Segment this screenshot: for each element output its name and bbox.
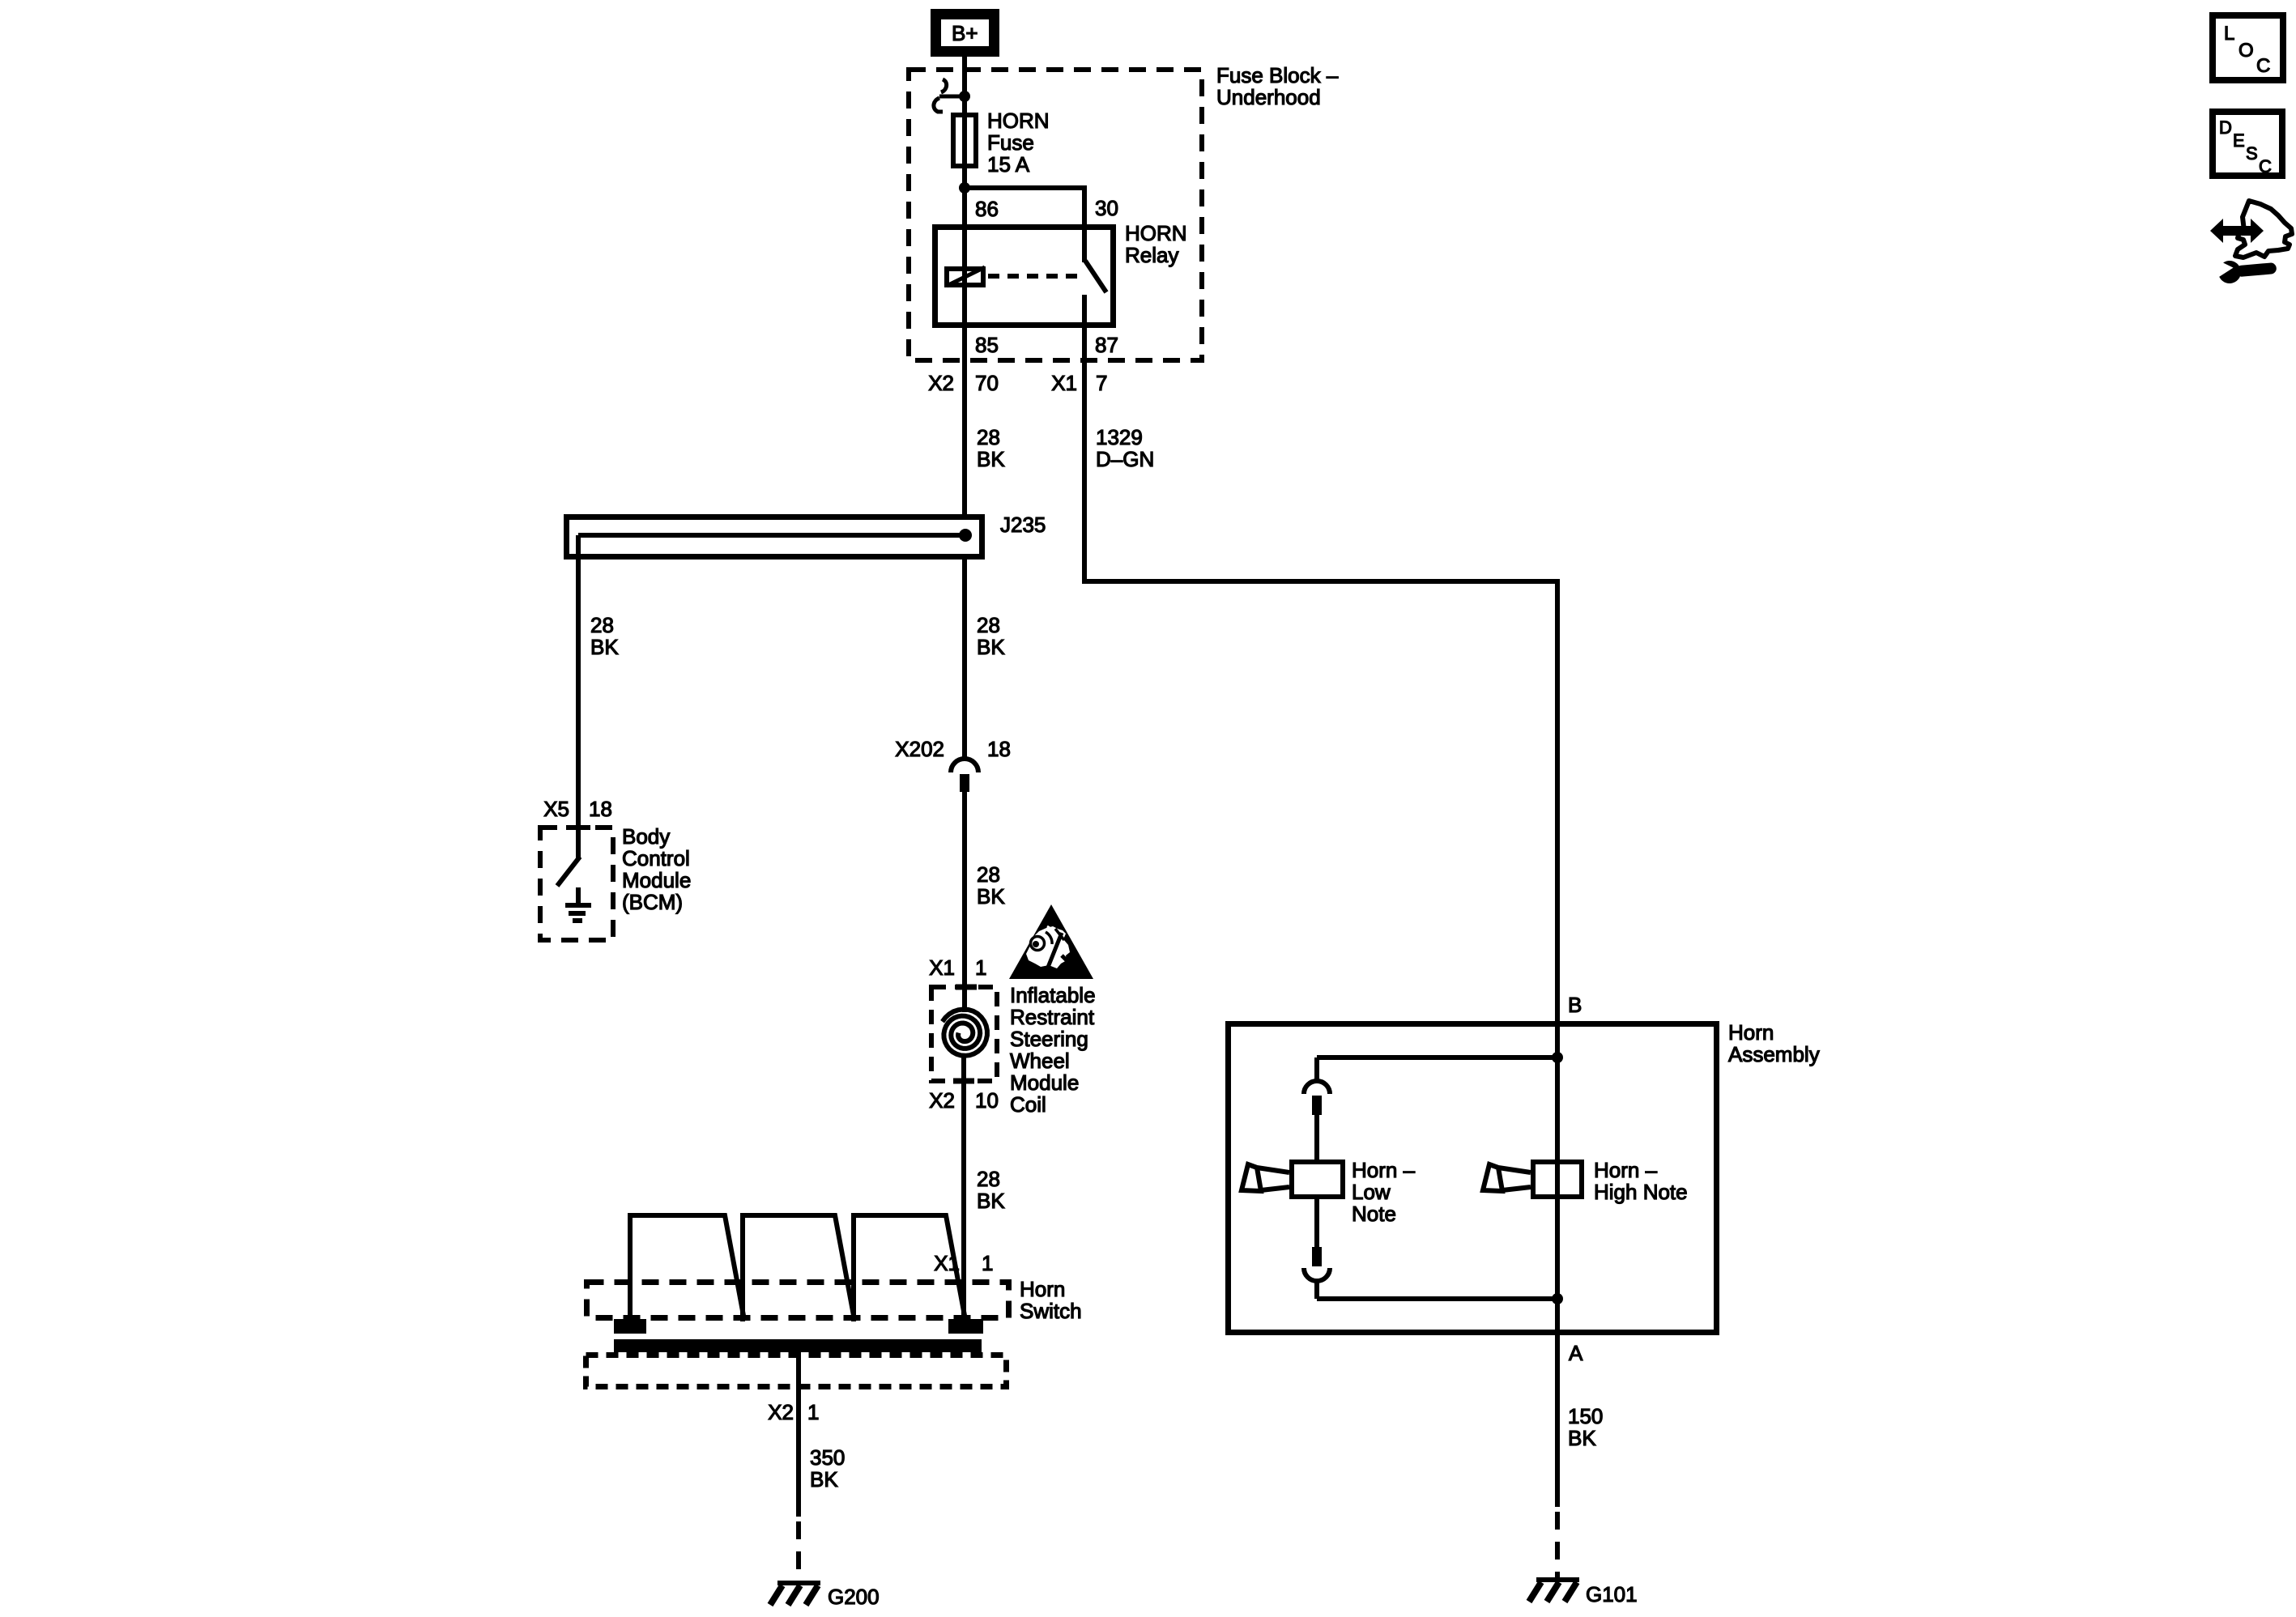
svg-text:BK: BK (977, 447, 1005, 471)
wire connector to bottom rail (1314, 1281, 1319, 1299)
svg-text:E: E (2233, 130, 2245, 151)
svg-text:C: C (2256, 55, 2270, 77)
svg-text:70: 70 (975, 371, 999, 395)
svg-text:Horn –: Horn – (1352, 1158, 1416, 1182)
junction dot below fuse (959, 182, 970, 194)
horn switch upper dashed box (587, 1283, 1009, 1318)
dashed wire to G200 (796, 1521, 801, 1581)
wire connector to low note horn (1314, 1115, 1319, 1160)
BCM pin tick (566, 825, 590, 830)
svg-text:D: D (2219, 117, 2232, 138)
svg-text:18: 18 (987, 737, 1011, 761)
DESC navigation icon (2213, 112, 2282, 177)
relay coil (947, 267, 985, 286)
svg-text:28: 28 (977, 613, 1000, 637)
junction dot bottom rail (1552, 1293, 1563, 1304)
svg-text:15 A: 15 A (987, 152, 1030, 177)
HORN relay box (935, 228, 1114, 326)
svg-text:G101: G101 (1586, 1582, 1638, 1606)
svg-text:L: L (2224, 23, 2234, 45)
wire spiral bottom down (961, 1054, 966, 1084)
horn switch common contact bar (614, 1339, 982, 1352)
dashed wire to G101 (1555, 1512, 1560, 1577)
coil bottom pin tick (953, 1079, 974, 1084)
svg-text:85: 85 (975, 333, 999, 357)
svg-text:BK: BK (1568, 1426, 1596, 1450)
svg-text:350: 350 (810, 1445, 845, 1470)
svg-text:X1: X1 (1051, 371, 1077, 395)
junction dot top rail (1552, 1052, 1563, 1063)
svg-text:Horn: Horn (1020, 1277, 1065, 1301)
relay pin 86 to 85 wire through coil (962, 224, 967, 328)
svg-text:B: B (1568, 993, 1582, 1017)
svg-text:1: 1 (975, 955, 986, 980)
horn assembly box (1229, 1024, 1717, 1333)
horn high note box (1533, 1162, 1582, 1197)
svg-text:Steering: Steering (1010, 1027, 1088, 1051)
LOC navigation icon (2213, 15, 2283, 80)
relay actuation dashed link (988, 274, 1080, 279)
svg-text:BK: BK (977, 635, 1005, 659)
J235 splice pack (567, 517, 982, 557)
svg-text:J235: J235 (1000, 513, 1046, 537)
horn assembly top rail (1317, 1055, 1557, 1060)
wire 28 BK coil to horn switch (961, 1084, 966, 1328)
svg-text:Low: Low (1352, 1180, 1391, 1204)
svg-text:BK: BK (977, 884, 1005, 908)
fuse block underhood dashed box (909, 70, 1202, 360)
svg-text:Control: Control (622, 846, 690, 870)
svg-text:HORN: HORN (987, 109, 1050, 133)
svg-text:Horn –: Horn – (1594, 1158, 1658, 1182)
horn switch lower dashed box (586, 1355, 1007, 1387)
horn switch left contact pad (614, 1319, 646, 1334)
svg-text:1: 1 (807, 1400, 819, 1424)
svg-text:18: 18 (589, 797, 612, 821)
relay pin 30 stub inside box (1082, 224, 1087, 262)
wire B+ to fuse (962, 57, 967, 114)
svg-text:Body: Body (622, 824, 670, 849)
svg-text:(BCM): (BCM) (622, 890, 683, 914)
svg-text:Horn: Horn (1728, 1020, 1774, 1045)
svg-text:1329: 1329 (1096, 425, 1143, 449)
svg-text:X2: X2 (929, 1088, 955, 1113)
clockspring coil spiral (943, 1010, 987, 1056)
horn low note box (1292, 1162, 1343, 1197)
horn high note trumpet (1483, 1164, 1531, 1191)
svg-text:28: 28 (977, 425, 1000, 449)
svg-text:D–GN: D–GN (1096, 447, 1154, 471)
svg-text:Module: Module (622, 868, 691, 892)
left branch wire 28 BK to BCM (576, 535, 581, 825)
svg-text:BK: BK (977, 1189, 1005, 1213)
svg-text:High Note: High Note (1594, 1180, 1688, 1204)
wire junction to relay pin 30 (965, 188, 1084, 224)
low note bottom inline connector (1304, 1247, 1330, 1281)
BCM internal ground symbol (565, 887, 591, 921)
SIR airbag warning triangle (1009, 904, 1093, 979)
svg-text:150: 150 (1568, 1404, 1603, 1428)
relay switch blade (open) (1085, 261, 1106, 292)
wire X202 to coil module (962, 792, 967, 1012)
ground G200 symbol (770, 1583, 820, 1605)
svg-text:G200: G200 (828, 1585, 880, 1609)
steering wheel coil dashed box (931, 987, 997, 1081)
svg-text:30: 30 (1095, 196, 1118, 220)
wire low note horn down (1314, 1199, 1319, 1247)
svg-text:86: 86 (975, 197, 999, 221)
connector repair icon (arrow, connector outline, wrench) (2210, 201, 2292, 284)
svg-text:C: C (2259, 156, 2272, 177)
svg-text:B+: B+ (952, 21, 978, 45)
svg-text:Relay: Relay (1125, 243, 1178, 267)
relay pin 87 wire (1082, 295, 1087, 363)
BCM internal switch blade (557, 857, 580, 886)
svg-text:Underhood: Underhood (1216, 85, 1321, 109)
BCM internal wire (576, 825, 581, 860)
svg-text:X1: X1 (929, 955, 955, 980)
svg-text:Fuse Block –: Fuse Block – (1216, 63, 1339, 87)
svg-text:Inflatable: Inflatable (1010, 983, 1096, 1007)
wire to low note top connector (1314, 1057, 1319, 1080)
svg-text:HORN: HORN (1125, 221, 1187, 245)
svg-text:Fuse: Fuse (987, 130, 1034, 155)
svg-text:X2: X2 (768, 1400, 794, 1424)
svg-text:Restraint: Restraint (1010, 1005, 1095, 1029)
horn switch right contact pad (948, 1319, 983, 1334)
svg-text:28: 28 (590, 613, 614, 637)
wire horn switch to ground (796, 1352, 801, 1517)
fusible link symbol (934, 79, 962, 112)
svg-text:X5: X5 (543, 797, 569, 821)
svg-text:28: 28 (977, 1167, 1000, 1191)
B+ battery positive voltage box (936, 15, 995, 52)
wire 150 BK horn assembly to ground (1555, 1335, 1560, 1507)
svg-text:Switch: Switch (1020, 1299, 1082, 1323)
horn switch contact bump 1 (630, 1215, 744, 1321)
horn assembly bottom rail (1317, 1296, 1557, 1301)
svg-text:X2: X2 (928, 371, 954, 395)
svg-text:BK: BK (810, 1467, 838, 1491)
svg-text:7: 7 (1096, 371, 1107, 395)
low note top inline connector (1304, 1081, 1330, 1115)
svg-text:Coil: Coil (1010, 1092, 1046, 1117)
wire fuse to relay (962, 168, 967, 224)
svg-text:X1: X1 (934, 1251, 960, 1275)
wire 1329 D-GN relay 87 to horn assembly B (1084, 363, 1557, 1021)
svg-text:1: 1 (982, 1251, 993, 1275)
horn fuse 15A symbol (953, 114, 976, 168)
svg-text:Wheel: Wheel (1010, 1049, 1070, 1073)
junction dot at fusible link (959, 91, 970, 102)
horn low note trumpet (1242, 1164, 1289, 1191)
svg-text:10: 10 (975, 1088, 999, 1113)
svg-text:S: S (2246, 143, 2258, 164)
coil top pin tick (956, 985, 977, 990)
svg-text:87: 87 (1095, 333, 1118, 357)
ground G101 symbol (1529, 1580, 1579, 1602)
svg-text:Note: Note (1352, 1202, 1396, 1226)
body control module dashed box (540, 828, 613, 940)
wire through J235 down (962, 560, 967, 760)
svg-text:X202: X202 (895, 737, 944, 761)
svg-text:Assembly: Assembly (1728, 1042, 1820, 1066)
svg-text:28: 28 (977, 862, 1000, 887)
horn switch contact bump 2 (743, 1215, 854, 1321)
svg-text:O: O (2238, 40, 2254, 62)
svg-text:A: A (1569, 1341, 1583, 1365)
svg-text:Module: Module (1010, 1070, 1079, 1095)
junction dot in J235 (959, 529, 972, 542)
horn switch contact bump 3 (854, 1215, 965, 1321)
wire through horn assembly (1555, 1021, 1560, 1335)
wire 28 BK relay 85 down to J235 (962, 328, 967, 516)
svg-text:BK: BK (590, 635, 619, 659)
